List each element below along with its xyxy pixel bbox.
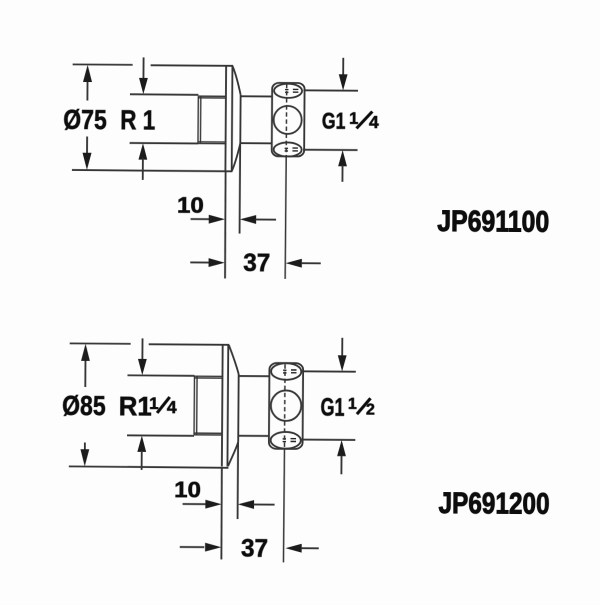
svg-text:Ø75: Ø75 [63, 104, 107, 135]
extension line G1 1/2 bottom [301, 439, 355, 441]
svg-text:R1: R1 [119, 391, 152, 421]
flange rim line [231, 66, 234, 171]
dim 10 left head [205, 500, 221, 509]
arrow R1 bottom head [138, 143, 147, 159]
svg-text:JP691100: JP691100 [437, 205, 549, 239]
arrow R1 top head [139, 78, 148, 94]
svg-text:1: 1 [149, 394, 159, 413]
flange rim line [226, 345, 229, 467]
extension line bottom [69, 466, 229, 467]
threaded nipple R1 1/4 [194, 376, 222, 435]
bell edge extension line down [237, 442, 240, 519]
fraction slash R1 1/4 [157, 397, 170, 413]
svg-text:Ø85: Ø85 [62, 390, 106, 421]
dim 10 left stem [191, 218, 210, 220]
extension line R1 1/4 bottom [127, 434, 194, 436]
dim line D85 upper stem [84, 359, 86, 387]
extension line top (right part to body) [151, 64, 233, 67]
dim 10 right stem [256, 218, 276, 220]
fraction slash 1/4 [356, 111, 372, 128]
thread marks top ellipse [283, 370, 296, 373]
arrow R1 1/4 top head [138, 359, 147, 375]
dim 10 right head [238, 500, 254, 509]
bell edge extension line down [239, 144, 242, 234]
svg-text:JP691200: JP691200 [438, 487, 549, 521]
arrow G1 top stem [342, 58, 344, 76]
dim 37 left head [205, 543, 221, 552]
dim 10 right head [240, 215, 256, 224]
nut side port circle [274, 106, 302, 134]
extension line bottom [72, 170, 232, 171]
neck bottom line [238, 435, 269, 437]
extension line top (right part) [149, 343, 230, 346]
arrow D85 down [80, 449, 89, 466]
bell top slant [229, 345, 239, 374]
thread marks bottom ellipse [283, 439, 296, 442]
centerline solid extension [282, 449, 285, 562]
arrow G1 1/2 top stem [341, 338, 343, 356]
dim line D85 lower stem [84, 443, 86, 451]
arrow G1 bottom head [338, 150, 347, 166]
arrow R1 1/4 bottom stem [141, 451, 143, 470]
svg-text:G1: G1 [320, 393, 344, 421]
neck bottom line [240, 142, 272, 144]
nut bottom ellipse [271, 432, 301, 449]
dim line D75 lower stem [86, 137, 88, 157]
label G1 1/4 [322, 108, 379, 134]
threaded nipple R1 [198, 96, 226, 144]
arrow G1 1/2 bottom stem [340, 456, 342, 475]
label R1 1/4 [119, 391, 177, 421]
extension line G1 top [303, 89, 357, 91]
svg-text:1: 1 [349, 110, 358, 128]
svg-text:G1: G1 [322, 108, 346, 134]
extension line R1 1/4 top [127, 374, 194, 377]
arrow R1 top stem [142, 57, 144, 78]
extension line G1 1/2 top [302, 370, 356, 372]
dim 37 right head [285, 544, 301, 553]
dim 10 left head [209, 215, 225, 224]
arrow R1 bottom stem [142, 158, 144, 179]
dim 37 right head [286, 259, 302, 268]
thread marks bottom ellipse [285, 148, 298, 151]
neck top line [239, 375, 270, 377]
bell rim edge [239, 95, 241, 144]
arrow G1 bottom stem [341, 165, 343, 181]
wall face extension line down [224, 171, 227, 278]
arrow D75 up [83, 65, 92, 82]
svg-text:37: 37 [241, 534, 268, 562]
dim 37 left stem [180, 546, 204, 548]
extension line G1 bottom [303, 149, 357, 151]
svg-text:10: 10 [174, 477, 201, 502]
arrow G1 1/2 bottom head [337, 440, 346, 456]
extension line R1 top [130, 93, 198, 96]
wall face extension line down [220, 468, 223, 560]
dim 37 left stem [190, 261, 209, 263]
dim line D75 upper stem [86, 80, 88, 101]
arrow D75 down [82, 153, 91, 170]
bell bottom curve [232, 143, 240, 171]
arrow G1 top head [339, 74, 348, 90]
bell bottom slant [228, 442, 238, 466]
union nut outline [269, 363, 303, 449]
thread marks top ellipse [285, 89, 298, 92]
nut top ellipse [274, 84, 302, 98]
nut bottom ellipse [274, 142, 302, 156]
svg-text:10: 10 [177, 193, 204, 218]
svg-text:R 1: R 1 [120, 104, 155, 135]
dim 10 left stem [183, 503, 206, 505]
nut centerline dashed [285, 84, 288, 157]
svg-text:1: 1 [348, 396, 357, 413]
neck top line [241, 95, 273, 97]
label G1 1/2 [320, 393, 375, 421]
union nut outline [272, 83, 305, 157]
extension line top (left part) [70, 342, 131, 344]
centerline solid extension [285, 157, 286, 279]
arrow G1 1/2 top head [338, 355, 347, 371]
nut top ellipse [271, 363, 301, 380]
bell top curve [232, 66, 241, 95]
dim 37 right stem [301, 262, 320, 264]
dim 10 right stem [254, 503, 275, 505]
nut centerline dashed [283, 364, 286, 449]
extension line top (left part) [73, 63, 133, 65]
nut side port circle [271, 390, 302, 421]
arrow D85 up [81, 344, 90, 361]
dim 37 left head [209, 258, 225, 267]
dim 37 right stem [301, 547, 319, 549]
extension line R1 bottom [130, 142, 198, 144]
arrow R1 1/4 bottom head [137, 436, 146, 452]
svg-text:37: 37 [243, 249, 270, 277]
bell rim edge [237, 374, 239, 442]
wall flange face line [224, 66, 227, 171]
fraction slash G1 1/2 [357, 398, 371, 414]
arrow R1 1/4 top stem [141, 338, 143, 359]
wall flange face line [221, 345, 224, 467]
